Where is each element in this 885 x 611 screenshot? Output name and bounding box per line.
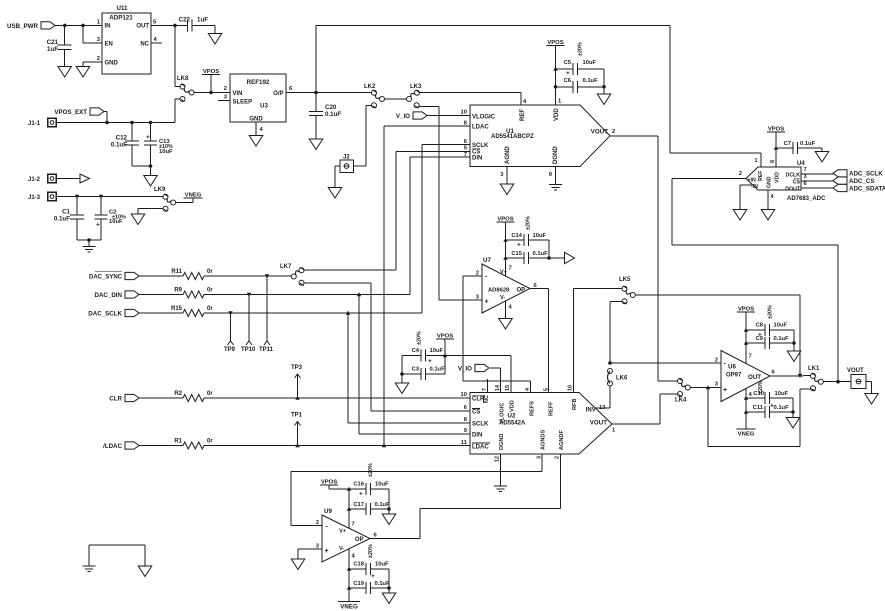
svg-text:LK2: LK2: [364, 84, 376, 90]
stub U2 DGND: [500, 454, 502, 486]
junction TP10 tap: [247, 293, 251, 297]
svg-text:7: 7: [352, 522, 355, 528]
svg-text:CS: CS: [793, 179, 801, 185]
jumper LK2: [364, 84, 385, 108]
pin 2 of U2 AGNDF: [555, 456, 561, 459]
label C7: [784, 141, 791, 147]
svg-text:2: 2: [476, 270, 479, 276]
svg-text:R11: R11: [171, 269, 182, 275]
connector VOUT: [847, 368, 866, 389]
svg-text:+: +: [371, 573, 375, 580]
svg-text:+: +: [485, 298, 489, 305]
connector J1-2: [28, 174, 56, 183]
power net VPOS at U9: [320, 480, 338, 486]
svg-text:ADC_CS: ADC_CS: [849, 178, 874, 185]
ground below U4 GND: [761, 210, 775, 221]
svg-text:2: 2: [715, 357, 718, 363]
label C10: [753, 391, 764, 397]
output flag ADC_SCLK: [833, 170, 883, 178]
svg-text:VPOS_EXT: VPOS_EXT: [54, 109, 87, 116]
input flag DAC_DIN: [94, 291, 139, 299]
junction ADC sense tap: [836, 380, 840, 384]
wire C12 C13 bottoms: [132, 165, 151, 167]
svg-text:REF: REF: [520, 109, 526, 121]
wire VOUT connector to ground: [866, 382, 872, 394]
capacitor C12: [125, 123, 139, 167]
stub U11 NC pin 4: [151, 42, 162, 44]
pin 3 of U1 AGND: [500, 172, 504, 178]
connector J1-1: [28, 118, 56, 127]
svg-text:U2: U2: [508, 413, 516, 420]
svg-text:±20%: ±20%: [368, 463, 374, 477]
svg-text:C18: C18: [353, 562, 364, 568]
svg-text:C22: C22: [179, 17, 191, 24]
plus of C16: [359, 491, 363, 498]
junction C11 tap: [744, 410, 748, 414]
svg-text:10uF: 10uF: [774, 323, 788, 329]
svg-text:TP1: TP1: [291, 413, 303, 419]
wire reference node to LK2: [316, 92, 372, 94]
ground below VOUT: [865, 394, 879, 405]
label C11: [753, 405, 764, 411]
plus of C5: [566, 70, 570, 77]
stub U4 REF pin 1: [760, 153, 762, 167]
svg-text:R9: R9: [174, 287, 182, 293]
stub U2 NC pin 7: [487, 379, 489, 393]
value 0.1uF of C20: [325, 111, 341, 118]
capacitor C21: [58, 25, 72, 66]
ground below U11 GND: [76, 67, 90, 78]
svg-text:DCLK: DCLK: [786, 172, 801, 178]
pin 5 of U2 REFF: [544, 388, 550, 391]
ground below U9 +: [291, 559, 305, 570]
svg-text:C17: C17: [353, 502, 364, 508]
svg-text:VDD: VDD: [775, 172, 781, 183]
stub C5C6 ground: [603, 87, 605, 94]
value 0.1uF of C19: [375, 581, 391, 587]
ground below C21: [58, 67, 71, 78]
svg-text:TP9: TP9: [224, 347, 236, 353]
junction C9 ground: [792, 341, 796, 345]
wire U9 + to ground: [298, 549, 322, 559]
svg-text:LK3: LK3: [410, 84, 422, 90]
output flag ADC_CS: [833, 177, 874, 185]
stub U1 AGND: [506, 167, 508, 185]
junction C19 ground: [387, 586, 391, 590]
wire C4 left down to C3: [401, 356, 403, 375]
capacitor C9: [746, 337, 794, 349]
power flag V_IO at U2: [458, 364, 489, 372]
wire LK3 to U1 REF: [419, 93, 521, 105]
label C13: [159, 139, 170, 145]
value 0.1uF of C6: [583, 78, 599, 84]
wire C16 C17 right: [388, 489, 390, 509]
svg-text:+: +: [325, 548, 329, 555]
wire J1-3 rail: [56, 196, 163, 198]
wire RFB to LK5: [574, 288, 623, 290]
svg-text:0.1uF: 0.1uF: [800, 141, 816, 147]
junction C17 ground: [387, 507, 391, 511]
plus of C18: [371, 573, 375, 580]
svg-text:0r: 0r: [207, 438, 213, 444]
power net VPOS at U4: [767, 127, 785, 133]
tolerance of C13: [159, 144, 173, 150]
capacitor C20: [309, 93, 323, 140]
capacitor C15: [506, 252, 550, 264]
svg-text:VNEG: VNEG: [738, 432, 755, 438]
svg-text:C19: C19: [353, 581, 364, 587]
label C3: [412, 367, 420, 373]
svg-text:1uF: 1uF: [197, 17, 208, 24]
wire LK7 to U2 CS vertical: [304, 282, 371, 284]
svg-text:VNEG: VNEG: [340, 604, 358, 611]
svg-text:OP97: OP97: [726, 373, 742, 379]
wire reference node up to top rail: [315, 25, 317, 92]
junction C1 top: [75, 195, 79, 199]
svg-text:RFB: RFB: [572, 399, 578, 411]
pin 12 of U2 DGND: [495, 456, 501, 462]
wire U2 AGNDS sense: [291, 454, 542, 472]
svg-text:EN: EN: [105, 41, 113, 47]
connector J1-3: [28, 192, 56, 201]
svg-text:C20: C20: [325, 104, 337, 111]
svg-text:10uF: 10uF: [159, 149, 173, 155]
wire U1 DIN net: [410, 157, 470, 295]
svg-text:V_IO: V_IO: [396, 113, 410, 120]
junction VPOS_EXT tap: [105, 121, 109, 125]
svg-text:0.1uF: 0.1uF: [533, 251, 549, 257]
label C15: [511, 251, 522, 257]
ground below C13: [144, 176, 158, 187]
value 1uF of C21: [47, 46, 58, 53]
capacitor C17: [349, 503, 389, 515]
capacitor C19: [349, 582, 389, 594]
svg-text:C16: C16: [353, 482, 364, 488]
wire EN to IN rail: [83, 25, 102, 43]
stub U4 VDD pin 8: [775, 148, 777, 167]
capacitor C18 polarized: [349, 563, 389, 575]
value 10uF of C5: [583, 60, 597, 66]
label C1: [62, 209, 70, 216]
op-amp U6 OP97: [715, 351, 776, 402]
test point TP11: [259, 276, 274, 353]
junction C11 ground: [791, 410, 795, 414]
stub U9 V- pin 4: [348, 549, 350, 601]
svg-text:REFS: REFS: [530, 401, 536, 416]
junction C14 tap: [503, 238, 507, 242]
value 10uF of C16: [375, 482, 389, 488]
wire LK8 bottom down to J1-1 rail: [174, 99, 176, 123]
label C6: [564, 78, 572, 84]
svg-text:AGNDS: AGNDS: [541, 430, 547, 450]
svg-text:DIN: DIN: [472, 155, 482, 161]
svg-text:LDAC: LDAC: [472, 125, 489, 131]
junction C12 top: [130, 121, 134, 125]
junction C17 tap: [347, 507, 351, 511]
stem VPOS to U1 VDD: [555, 46, 557, 106]
svg-text:LK5: LK5: [619, 277, 631, 283]
capacitor C22: [175, 19, 215, 31]
value 0.1uF of C3: [430, 367, 446, 373]
svg-text:CS: CS: [472, 410, 480, 416]
value 0.1uF of C15: [533, 251, 549, 257]
svg-text:J2: J2: [343, 155, 350, 161]
tolerance of C8: [768, 305, 774, 319]
voltage reference U3 REF192: [224, 74, 293, 133]
svg-text:10uF: 10uF: [375, 562, 389, 568]
junction C2 top: [99, 195, 103, 199]
junction C6 ground: [602, 85, 606, 89]
capacitor C10 polarized: [746, 392, 793, 404]
svg-text:U6: U6: [728, 364, 736, 371]
svg-text:TP11: TP11: [259, 347, 274, 353]
svg-text:LK8: LK8: [177, 76, 189, 82]
wire U7 feedback pin2 to REFS: [463, 276, 530, 393]
capacitor C1: [70, 197, 84, 241]
label C4: [412, 348, 420, 354]
off-page arrow at J1-2: [80, 174, 90, 183]
svg-text:GND: GND: [249, 117, 263, 123]
ground below U7: [499, 319, 513, 330]
op-amp U7 AD8628: [476, 257, 538, 313]
wire U1 LDAC net: [384, 126, 470, 446]
ground below C3: [395, 383, 409, 394]
junction C21 top: [63, 24, 67, 28]
wire U2 CS net vertical: [371, 283, 470, 411]
svg-text:+IN: +IN: [748, 177, 756, 183]
svg-text:5: 5: [544, 388, 550, 391]
svg-text:±20%: ±20%: [526, 216, 532, 230]
svg-text:R15: R15: [171, 306, 183, 312]
stub REF192 GND pin 4: [255, 122, 257, 136]
capacitor C7: [776, 142, 822, 154]
stub C8C9 ground: [793, 343, 795, 351]
junction C13 ground: [149, 164, 153, 168]
regulator U11 ADP121: [97, 5, 158, 74]
svg-text:AGNDF: AGNDF: [559, 430, 565, 450]
svg-text:REF: REF: [758, 171, 764, 181]
wire C8 C9 right: [793, 330, 795, 343]
value 0.1uF of C17: [375, 502, 391, 508]
svg-text:+: +: [146, 134, 150, 141]
ground right of C6: [597, 94, 611, 105]
svg-text:TP3: TP3: [291, 365, 303, 371]
DAC U1 AD5541ABCPZ: [461, 105, 616, 167]
earth ground of tie: [83, 566, 96, 572]
junction C8 tap: [744, 328, 748, 332]
junction C3 ground: [400, 372, 404, 376]
tolerance of C5: [578, 42, 584, 56]
svg-text:0.1uF: 0.1uF: [583, 78, 599, 84]
svg-text:C4: C4: [412, 348, 420, 354]
svg-text:3: 3: [536, 456, 542, 459]
svg-text:0.1uF: 0.1uF: [111, 142, 127, 149]
tolerance of C4: [417, 331, 423, 345]
svg-text:R2: R2: [174, 391, 182, 397]
svg-text:VOUT: VOUT: [591, 129, 608, 136]
power net VPOS at LK8: [202, 69, 220, 75]
wire U1 VOUT to LK4: [610, 136, 678, 381]
wire to earth ground: [88, 240, 90, 247]
wire U2 AGNDF force: [420, 454, 561, 509]
pin 3 of U2 AGNDS: [536, 456, 542, 459]
wire C22 to ground: [214, 25, 216, 33]
svg-text:16: 16: [568, 385, 574, 391]
value 1uF of C22: [197, 17, 208, 24]
plus of C14: [517, 242, 521, 249]
wire USB_PWR to U11 IN: [55, 24, 102, 26]
svg-text:10uF: 10uF: [430, 348, 444, 354]
stub C16C17 ground: [388, 509, 390, 514]
svg-text:C21: C21: [47, 39, 59, 46]
wire LK4 common to U6 +: [690, 387, 721, 389]
svg-text:+: +: [96, 222, 100, 229]
svg-text:+: +: [566, 70, 570, 77]
input flag /LDAC: [103, 442, 139, 450]
wire C7 to ground: [821, 148, 823, 152]
label C19: [353, 581, 364, 587]
svg-text:INV: INV: [586, 407, 596, 413]
svg-text:11: 11: [461, 440, 468, 446]
value 10uF of C8: [774, 323, 788, 329]
jumper LK7: [280, 264, 304, 286]
pin 4 of U2 REFS: [525, 388, 531, 391]
svg-text:C1: C1: [62, 209, 70, 216]
junction VPOS tap at VIN: [209, 91, 213, 95]
svg-text:4: 4: [525, 388, 531, 391]
wire U9 OP to AGNDF: [370, 509, 420, 539]
junction C6 tap: [554, 85, 558, 89]
svg-text:DGND: DGND: [553, 146, 559, 164]
value 10uF of C4: [430, 348, 444, 354]
ground below J2: [328, 188, 342, 199]
svg-text:C15: C15: [511, 251, 522, 257]
svg-text:DAC_DIN: DAC_DIN: [94, 292, 122, 299]
power net VNEG at U9: [338, 602, 360, 611]
svg-text:C11: C11: [753, 405, 764, 411]
wire U4 -IN to ground: [740, 185, 752, 210]
wire J2 to ground: [335, 166, 340, 188]
stub U7 V- pin 4: [505, 301, 507, 319]
wire VPOS_EXT down: [104, 112, 107, 123]
test point TP10: [241, 295, 256, 354]
wire LK5 common to U6 OUT: [635, 295, 800, 376]
svg-text:0.1uF: 0.1uF: [375, 502, 391, 508]
svg-text:SLEEP: SLEEP: [233, 100, 253, 106]
svg-text:AD5541ABCPZ: AD5541ABCPZ: [491, 134, 534, 140]
value 0.1uF of C9: [774, 336, 790, 342]
pin 1 of U1 VDD: [558, 99, 562, 105]
ground below U1 AGND: [500, 184, 514, 195]
label C2: [109, 210, 116, 216]
wire LK5 bottom to U6 -: [610, 301, 622, 363]
ground right of C7: [815, 152, 829, 163]
pin 9 of U1 DGND: [549, 172, 553, 178]
label C5: [564, 60, 572, 66]
tolerance of C14: [526, 216, 532, 230]
ground right of C22: [208, 34, 222, 45]
svg-text:SCLK: SCLK: [472, 422, 489, 428]
svg-text:C8: C8: [756, 323, 764, 329]
junction U2 SCLK tap: [346, 311, 350, 315]
svg-text:+: +: [517, 242, 521, 249]
svg-text:O/P: O/P: [273, 91, 283, 97]
svg-text:2: 2: [316, 520, 319, 526]
junction LDAC bus tap: [382, 443, 386, 447]
wire LK2 bottom to J2: [353, 105, 372, 166]
svg-text:-IN: -IN: [751, 184, 758, 190]
input connector USB_PWR: [0, 0, 1, 1]
earth ground below U2 DGND: [494, 486, 507, 492]
stem VPOS to U2 VDD wire: [444, 339, 446, 356]
svg-text:+: +: [428, 358, 432, 365]
capacitor C8 polarized: [746, 324, 794, 336]
svg-text:1uF: 1uF: [47, 46, 58, 53]
pin 14 of U2 VLOGIC: [495, 385, 501, 391]
svg-text:±20%: ±20%: [368, 544, 374, 558]
input flag CLR: [109, 394, 139, 402]
svg-text:V-: V-: [500, 295, 505, 301]
DAC U2 AD5542A: [461, 392, 616, 454]
svg-text:8: 8: [770, 160, 776, 163]
stem VPOS to C16: [329, 485, 349, 489]
svg-text:±20%: ±20%: [758, 380, 764, 394]
pin 15 of U2 VDD: [505, 385, 511, 391]
wire REF192 O/P output: [286, 92, 316, 94]
svg-text:15: 15: [505, 385, 511, 391]
wire C15 to arrow: [549, 257, 565, 259]
test point TP9: [224, 313, 236, 353]
op-amp U9: [316, 508, 378, 562]
junction OUT to LK8: [173, 24, 177, 28]
junction TP3 tap: [295, 396, 299, 400]
wire C16 junction to U9 V+: [348, 489, 350, 528]
junction reference node: [314, 91, 318, 95]
svg-text:LK9: LK9: [154, 187, 166, 193]
wire ground tie bracket: [89, 545, 145, 566]
svg-text:1: 1: [755, 158, 758, 164]
earth ground below U1 DGND: [549, 185, 562, 191]
svg-text:J1-2: J1-2: [28, 177, 41, 183]
junction C4 VPOS: [443, 353, 447, 357]
wire U9 feedback: [291, 472, 322, 526]
svg-text:2: 2: [224, 86, 227, 92]
stub REF192 SLEEP pin 3: [218, 100, 230, 102]
junction C10 tap: [744, 396, 748, 400]
wire LK9 to VNEG: [175, 198, 193, 203]
plus of C8: [758, 332, 762, 339]
wire U4 CS out: [801, 180, 833, 182]
svg-text:C3: C3: [412, 367, 420, 373]
ground below C20: [309, 139, 323, 150]
svg-text:DOUT: DOUT: [785, 186, 801, 192]
wire top reference rail to ADC: [316, 25, 761, 153]
wire OUT down to LK8: [175, 25, 180, 86]
wire to ground of C12 C13: [150, 166, 152, 176]
jumper LK9: [154, 187, 176, 212]
svg-text:U9: U9: [324, 508, 332, 515]
ground right of C19: [382, 593, 396, 604]
svg-text:DAC_SCLK: DAC_SCLK: [88, 310, 122, 317]
junction C13 top: [149, 121, 153, 125]
value 0.1uF of C7: [800, 141, 816, 147]
value 10uF of C18: [375, 562, 389, 568]
capacitor C13 polarized: [144, 123, 157, 167]
svg-text:0r: 0r: [207, 391, 213, 397]
value 10uF of C10: [775, 391, 789, 397]
svg-text:10uF: 10uF: [375, 482, 389, 488]
svg-text:OUT: OUT: [748, 374, 761, 381]
